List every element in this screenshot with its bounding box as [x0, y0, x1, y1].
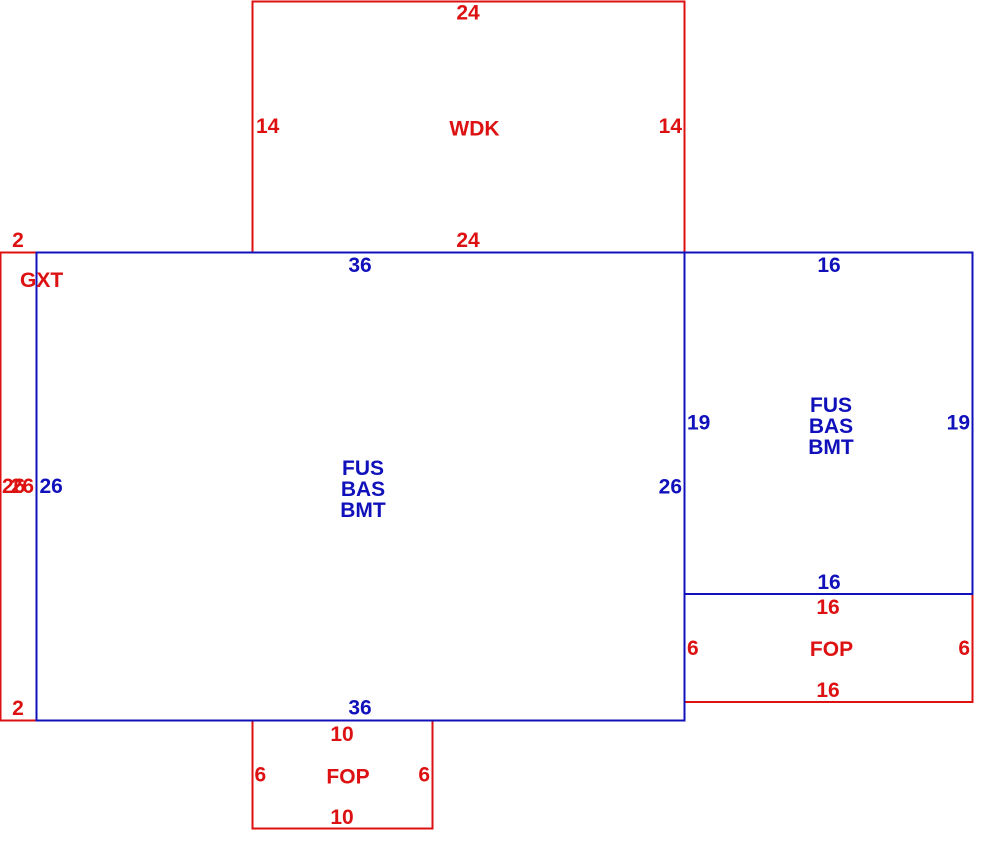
svg-text:WDK: WDK	[449, 118, 499, 141]
svg-text:26: 26	[40, 475, 63, 498]
svg-text:FOP: FOP	[326, 766, 369, 789]
svg-text:2: 2	[12, 229, 24, 252]
svg-text:FOP: FOP	[810, 638, 853, 661]
svg-text:FUS: FUS	[342, 457, 384, 480]
svg-text:10: 10	[330, 723, 353, 746]
svg-text:24: 24	[456, 2, 480, 25]
svg-text:FUS: FUS	[810, 394, 852, 417]
svg-text:BMT: BMT	[808, 436, 854, 459]
svg-text:BAS: BAS	[341, 478, 385, 501]
svg-text:10: 10	[330, 806, 353, 829]
svg-text:6: 6	[687, 637, 699, 660]
svg-text:GXT: GXT	[20, 269, 63, 292]
svg-text:14: 14	[256, 115, 280, 138]
svg-text:16: 16	[816, 679, 839, 702]
svg-text:19: 19	[947, 412, 970, 435]
svg-text:6: 6	[418, 764, 430, 787]
svg-text:19: 19	[687, 412, 710, 435]
svg-text:16: 16	[817, 254, 840, 277]
svg-text:BAS: BAS	[809, 415, 853, 438]
svg-text:6: 6	[255, 764, 267, 787]
svg-text:16: 16	[816, 596, 839, 619]
svg-text:36: 36	[348, 697, 371, 720]
svg-text:2: 2	[12, 697, 24, 720]
svg-text:14: 14	[659, 115, 683, 138]
svg-text:36: 36	[348, 254, 371, 277]
svg-text:26: 26	[11, 475, 34, 498]
svg-text:24: 24	[456, 229, 480, 252]
svg-text:6: 6	[958, 637, 970, 660]
svg-text:16: 16	[817, 571, 840, 594]
svg-text:26: 26	[659, 476, 682, 499]
svg-text:BMT: BMT	[340, 499, 386, 522]
